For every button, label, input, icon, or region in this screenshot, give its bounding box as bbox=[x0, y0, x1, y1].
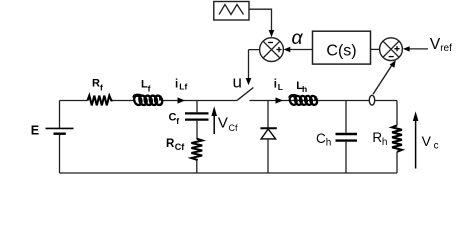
svg-text:C(s): C(s) bbox=[326, 42, 356, 59]
svg-text:i: i bbox=[274, 79, 277, 91]
svg-text:Lf: Lf bbox=[179, 82, 187, 92]
svg-text:R: R bbox=[372, 130, 382, 145]
svg-text:h: h bbox=[382, 137, 388, 148]
current arrow i_L bbox=[276, 97, 284, 103]
svg-text:R: R bbox=[92, 77, 100, 89]
wire: C_f branch bbox=[196, 101, 198, 140]
duty-cycle arrow alpha into comparator bbox=[284, 47, 313, 52]
capacitor C_h bbox=[336, 134, 358, 141]
wire: top wire from battery to switch left contact bbox=[60, 100, 238, 102]
svg-text:f: f bbox=[100, 82, 103, 92]
resistor R_f bbox=[88, 96, 113, 106]
svg-text:i: i bbox=[175, 78, 178, 90]
wire: top wire from switch right contact to R_h corner bbox=[250, 100, 398, 102]
resistor R_Cf bbox=[191, 139, 202, 161]
svg-text:Cf: Cf bbox=[175, 142, 185, 152]
inductor L_h bbox=[289, 95, 319, 106]
voltage arrow V_c bbox=[413, 111, 419, 168]
svg-text:α: α bbox=[292, 27, 304, 49]
svg-text:C: C bbox=[316, 131, 326, 146]
feedback wire to summer bbox=[373, 60, 396, 94]
current arrow i_Lf bbox=[178, 97, 186, 103]
switch u (arm) bbox=[237, 88, 253, 101]
wire: left vertical branch to battery bbox=[59, 101, 61, 174]
voltage arrow V_Cf bbox=[211, 106, 217, 134]
svg-text:h: h bbox=[326, 138, 332, 149]
svg-text:c: c bbox=[434, 141, 439, 152]
svg-text:ref: ref bbox=[440, 43, 452, 54]
svg-text:f: f bbox=[176, 116, 179, 126]
svg-text:h: h bbox=[302, 84, 307, 94]
capacitor C_f bbox=[185, 113, 209, 119]
svg-text:Cf: Cf bbox=[229, 123, 238, 133]
svg-text:V: V bbox=[218, 115, 228, 132]
sawtooth generator block bbox=[214, 2, 249, 21]
comparator circle (PWM modulator) bbox=[260, 38, 284, 62]
wire: R_h branch verticals bbox=[396, 101, 398, 174]
svg-text:u: u bbox=[233, 73, 242, 92]
wire: bottom return wire bbox=[60, 172, 398, 174]
battery E (cell) bbox=[46, 128, 74, 133]
wire: R_Cf to bottom bbox=[196, 161, 198, 174]
svg-text:L: L bbox=[278, 82, 283, 92]
resistor R_h bbox=[392, 126, 402, 152]
svg-text:f: f bbox=[148, 83, 151, 93]
svg-text:R: R bbox=[166, 138, 175, 150]
wire: C_h branch bbox=[345, 101, 347, 174]
sensing node (pick-off point) on output wire bbox=[369, 95, 374, 105]
svg-text:E: E bbox=[31, 124, 39, 138]
wire: summer to controller bbox=[371, 48, 380, 50]
svg-text:V: V bbox=[422, 133, 432, 149]
controller block C(s) bbox=[313, 31, 371, 64]
wire: sawtooth to comparator with down arrow bbox=[249, 9, 274, 37]
switch control arrow from comparator bbox=[246, 50, 260, 86]
svg-text:C: C bbox=[169, 112, 177, 124]
summer circle (error amplifier input) bbox=[380, 38, 403, 61]
diode D bbox=[260, 101, 276, 174]
inductor L_f bbox=[133, 95, 164, 106]
V_ref input arrow bbox=[403, 46, 428, 51]
